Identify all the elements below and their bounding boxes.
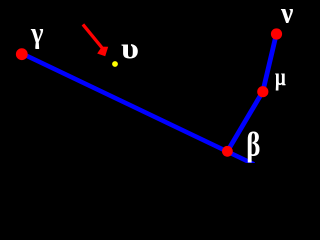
svg-text:μ: μ [275,64,286,91]
svg-text:γ: γ [30,17,43,50]
svg-text:ν: ν [280,0,294,30]
svg-text:β: β [246,127,260,164]
svg-text:υ: υ [121,32,139,65]
